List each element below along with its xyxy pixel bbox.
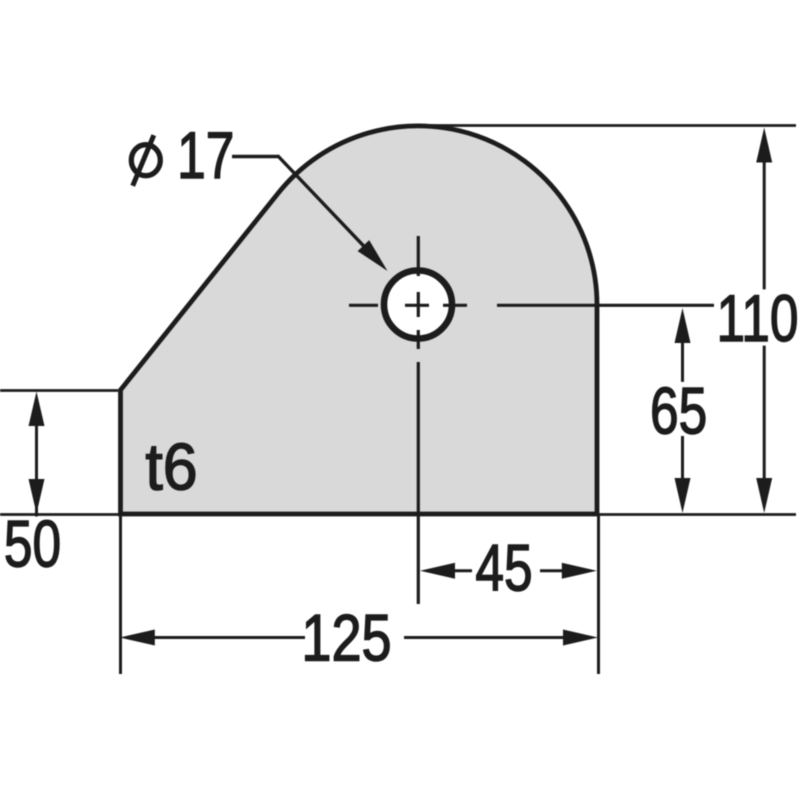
dimension 45 arrow right [562,563,597,579]
plate outline (bracket body) [121,126,598,514]
dimension 125 line right segment [404,636,590,639]
top extension line [411,124,796,127]
extension line from hole center to 110 label [497,304,714,307]
dimension 65 line lower segment [681,436,684,482]
dimension 125 arrow right [563,630,598,646]
leader line horizontal from phi17 [232,155,279,158]
dimension 110 line lower segment [763,346,766,482]
svg-text:t6: t6 [145,430,197,504]
hole center cross horizontal [405,304,429,307]
svg-text:17: 17 [177,118,234,193]
hole circle [384,271,452,339]
dimension 125 line left segment [130,636,305,639]
dimension 50 arrow down [29,479,45,514]
hole center line vertical dash top [417,236,420,276]
label 17 [177,118,234,193]
svg-text:110: 110 [716,281,798,356]
dimension 125 arrow left [120,630,155,646]
dimension 45 line left segment [448,569,472,572]
svg-text:50: 50 [4,506,61,581]
svg-text:65: 65 [650,373,707,448]
svg-text:45: 45 [475,530,532,605]
dimension 110 arrow up [756,128,772,163]
hole center line vertical dash below [417,330,420,349]
leader line diagonal to hole [278,156,365,247]
dimension 45 arrow left [420,563,455,579]
dimension 50 arrow up [29,392,45,427]
label 50 [4,506,61,581]
dimension 110 line upper segment [763,150,766,289]
label 110 [716,281,798,356]
hole center cross vertical [417,292,420,317]
phi symbol slash [133,135,154,186]
dimension 50 line [35,404,38,517]
leader arrowhead [358,240,388,271]
hole center line vertical long segment to 45 dimension [417,362,420,604]
phi symbol loop [131,145,160,176]
label 125 [301,600,391,674]
hole center line horizontal dash right [443,304,467,307]
bottom extension line [0,513,796,516]
dimension 65 line upper segment [681,330,684,382]
label 65 [650,373,707,448]
dimension 110 arrow down [756,478,772,513]
extension line right of 125 [597,514,600,674]
dimension 45 line right segment [540,569,565,572]
label 45 [475,530,532,605]
left extension line (50 top) [0,389,118,392]
dimension 65 arrow up [675,308,691,343]
svg-text:125: 125 [301,600,391,674]
extension line left of 125 [119,514,122,674]
hole center line horizontal dash left [349,304,378,307]
dimension 65 arrow down [675,478,691,513]
label t6 thickness [145,430,197,504]
